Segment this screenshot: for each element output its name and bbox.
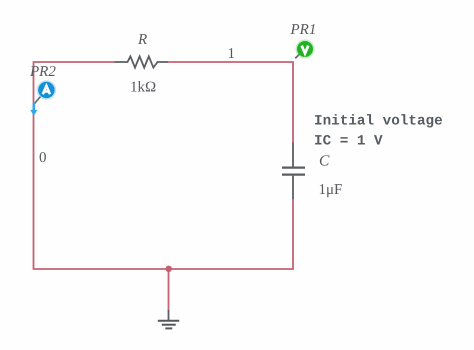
ground bar 1 [158,320,179,322]
svg-text:Initial voltage: Initial voltage [314,113,443,129]
probe PR2 glow [37,80,57,100]
capacitor C1 bottom lead [292,176,294,199]
probe PR1 tail [295,54,299,58]
svg-text:R: R [137,32,147,48]
ground bar 3 [165,327,172,329]
wire: right vertical upper (to capacitor) [292,61,294,143]
wire: left vertical (net 0 side) [33,61,35,269]
probe PR2 letter A [43,86,50,94]
svg-text:0: 0 [39,150,47,166]
svg-text:PR1: PR1 [290,22,317,38]
probe PR2 tail [34,97,40,104]
svg-text:C: C [319,153,330,170]
wire: ground stem [168,269,170,311]
junction dot [166,266,172,272]
probe PR2 current direction arrow shaft [33,103,35,111]
wire net 1: top-left segment [34,61,115,63]
resistor R1 body [115,56,169,67]
wire net 1: top-right segment to node 1 [168,61,293,63]
wire: bottom horizontal [33,268,294,270]
probe PR1 letter V [302,46,309,54]
capacitor C1 bottom plate [282,174,305,176]
svg-text:1μF: 1μF [319,182,343,198]
probe PR2 current direction arrow head [30,110,37,116]
svg-text:IC = 1 V: IC = 1 V [314,134,383,150]
ground: gray stem [168,310,170,320]
probe PR1 glow [295,39,314,58]
wire: right vertical lower (from capacitor) [292,199,294,270]
probe PR1 circle (voltage) [297,41,313,57]
svg-text:1: 1 [228,46,236,62]
svg-text:1kΩ: 1kΩ [130,80,156,96]
capacitor C1 top plate [282,167,305,169]
probe PR2 circle (current) [38,82,54,98]
svg-text:PR2: PR2 [29,64,56,80]
ground bar 2 [162,324,176,326]
capacitor C1 top lead [292,143,294,167]
